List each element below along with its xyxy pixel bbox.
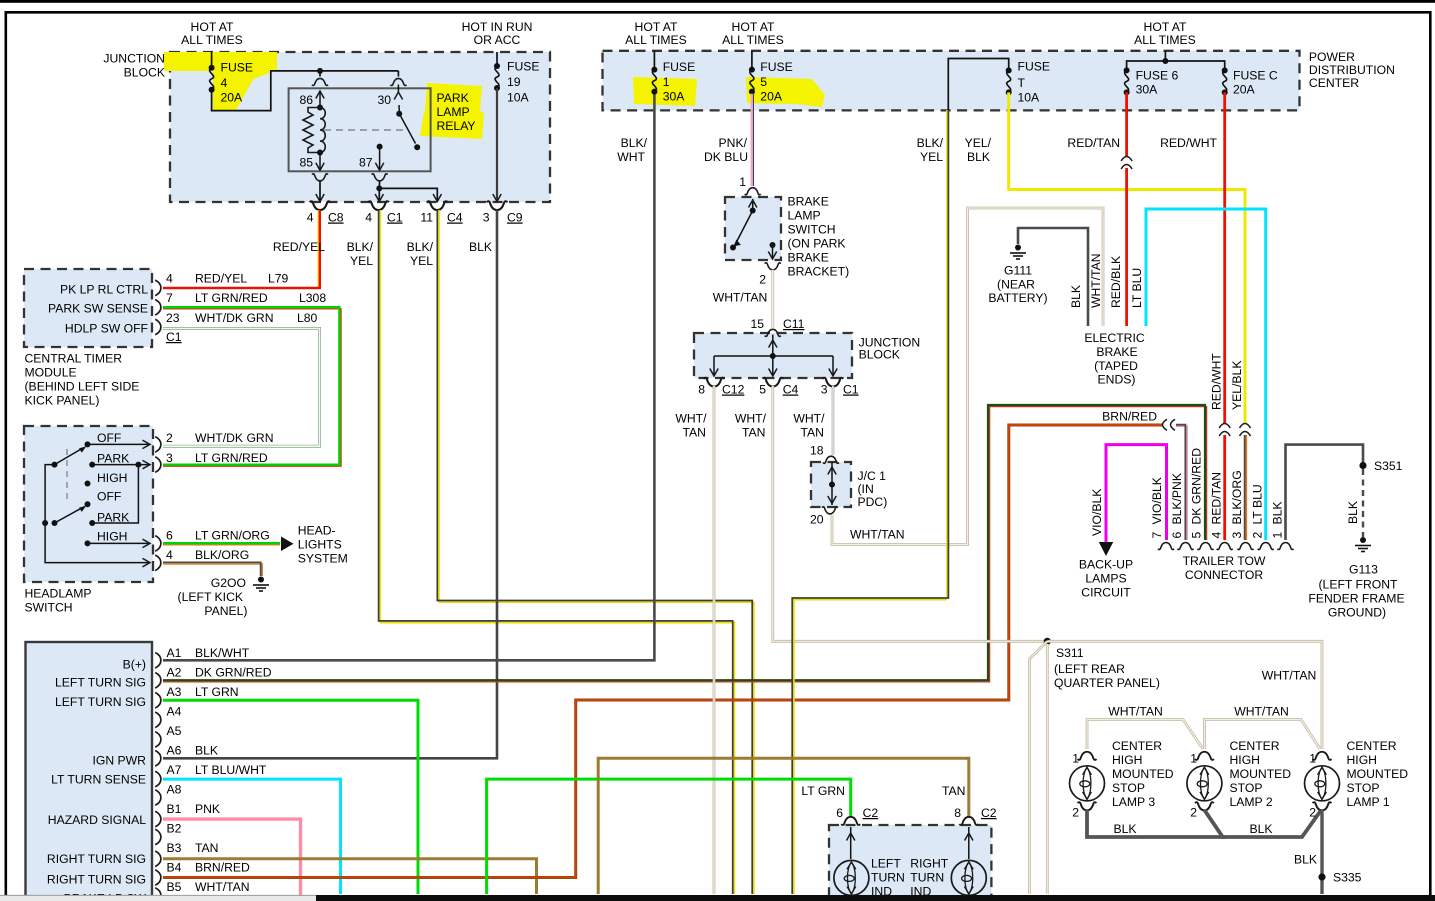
- right turn indicator feed arrow: [968, 827, 970, 859]
- svg-text:C11: C11: [783, 317, 805, 331]
- svg-text:WHT/TAN: WHT/TAN: [1108, 705, 1163, 719]
- wire BLK/YEL PDC down-left-down: [794, 110, 947, 894]
- svg-text:T: T: [1018, 76, 1026, 90]
- headlamp switch box: [24, 426, 153, 582]
- stop lamp 1: [1305, 766, 1340, 801]
- trailer pin 1 arc: [1278, 543, 1294, 550]
- svg-text:10A: 10A: [507, 91, 530, 105]
- pin 20 arc: [822, 507, 838, 514]
- wire BRN/RED B4 to inline connector: [163, 425, 1162, 878]
- svg-text:MODULE: MODULE: [25, 366, 77, 380]
- relay pin 86 internal arrow: [319, 91, 321, 108]
- svg-text:C4: C4: [783, 383, 799, 397]
- splice S311: [1044, 638, 1051, 645]
- wire pin 87 split to C1 and C4: [379, 180, 437, 201]
- highlight junction block fuse 4: [164, 52, 277, 84]
- splice S335: [1318, 873, 1325, 880]
- pin 30 arc: [390, 78, 406, 85]
- svg-text:OR ACC: OR ACC: [474, 33, 521, 47]
- svg-text:WHT/TAN: WHT/TAN: [1089, 253, 1103, 308]
- svg-text:A8: A8: [167, 783, 182, 797]
- svg-text:LT BLU: LT BLU: [1130, 268, 1144, 308]
- svg-text:LT TURN SENSE: LT TURN SENSE: [51, 773, 146, 787]
- svg-text:HIGH: HIGH: [1347, 753, 1377, 767]
- switch mechanical dashed link: [66, 449, 68, 502]
- svg-text:BLK: BLK: [1113, 822, 1136, 836]
- sheet top black strip: [0, 0, 1435, 3]
- svg-text:PARK: PARK: [97, 452, 129, 466]
- svg-text:ENDS): ENDS): [1098, 373, 1136, 387]
- svg-text:85: 85: [299, 156, 313, 170]
- svg-text:B3: B3: [167, 841, 182, 855]
- wire TAN B3 down: [163, 859, 537, 894]
- wire RED/YEL C8 to CTM pin 4: [317, 210, 319, 287]
- connector C1 arc: [823, 378, 844, 387]
- svg-text:C1: C1: [387, 211, 403, 225]
- svg-text:SWITCH: SWITCH: [25, 601, 73, 615]
- svg-text:IGN PWR: IGN PWR: [93, 754, 147, 768]
- wire pin 85 to C8: [319, 180, 321, 201]
- wire PNK/DK BLU fuse 5 to brake lamp switch pin 1: [752, 94, 754, 186]
- relay switch contact 30: [397, 85, 399, 93]
- svg-text:BLK: BLK: [1294, 853, 1317, 867]
- wire WHT/TAN S311 branch down-left: [1030, 641, 1048, 894]
- pin 2 arc: [155, 437, 161, 453]
- trailer pin 3 arc: [1238, 543, 1254, 550]
- switch OFF2 contact dot: [85, 501, 91, 507]
- svg-text:15: 15: [750, 317, 764, 331]
- J/C 1 box: [811, 462, 851, 507]
- switch PARK contact row: [89, 462, 95, 468]
- pin B4 arc: [155, 870, 161, 886]
- svg-text:B4: B4: [167, 861, 182, 875]
- switch OFF contact row: [85, 441, 91, 447]
- svg-text:B1: B1: [167, 802, 182, 816]
- svg-text:WHT/: WHT/: [735, 412, 767, 426]
- arrow back-up lamps circuit: [1099, 542, 1113, 556]
- svg-text:(BEHIND LEFT SIDE: (BEHIND LEFT SIDE: [25, 380, 140, 394]
- svg-text:TAN: TAN: [195, 841, 218, 855]
- svg-text:A7: A7: [167, 763, 182, 777]
- pin 15 C11 arc: [765, 329, 781, 336]
- svg-text:C2: C2: [981, 806, 997, 820]
- svg-text:8: 8: [954, 806, 961, 820]
- junction block (middle) box: [694, 333, 852, 378]
- wire feed fuse 1: [653, 51, 655, 68]
- inline connector BRN/RED to BLK/PNK: [1164, 423, 1173, 428]
- wire to relay pin 86: [319, 71, 321, 77]
- pin A1 arc: [155, 653, 161, 669]
- svg-text:C1: C1: [166, 330, 182, 344]
- svg-text:YEL: YEL: [920, 150, 943, 164]
- wire fuse 4 to relay bus: [212, 71, 399, 111]
- wire BLK lamp3 to lamp2: [1087, 810, 1223, 837]
- svg-text:TAN: TAN: [801, 426, 824, 440]
- bus fuse 6 / fuse C: [1127, 51, 1225, 69]
- svg-text:86: 86: [299, 93, 313, 107]
- svg-text:LEFT TURN SIG: LEFT TURN SIG: [55, 695, 146, 709]
- svg-text:(NEAR: (NEAR: [997, 278, 1035, 292]
- svg-text:G113: G113: [1349, 563, 1378, 577]
- svg-text:2: 2: [166, 431, 173, 445]
- svg-text:PK LP RL CTRL: PK LP RL CTRL: [60, 283, 148, 297]
- svg-text:1: 1: [663, 75, 670, 89]
- svg-text:L80: L80: [297, 311, 318, 325]
- svg-text:6: 6: [1170, 532, 1184, 539]
- svg-text:CONNECTOR: CONNECTOR: [1185, 568, 1264, 582]
- svg-text:ELECTRIC: ELECTRIC: [1084, 331, 1144, 345]
- svg-text:BLOCK: BLOCK: [124, 66, 165, 80]
- pin A4 arc: [155, 712, 161, 728]
- inline connector RED/TAN to RED/BLK: [1124, 158, 1129, 167]
- wire BLK lamp1 to S335: [1320, 810, 1323, 894]
- stop lamp 3 pin 1 arc: [1078, 752, 1097, 760]
- pin 4 arc: [155, 555, 161, 571]
- svg-text:G2OO: G2OO: [211, 576, 246, 590]
- svg-text:JUNCTION: JUNCTION: [103, 52, 165, 66]
- ground G111: [1010, 245, 1026, 260]
- wire BLK lamp2 to lamp1: [1223, 811, 1321, 837]
- svg-text:VIO/BLK: VIO/BLK: [1150, 477, 1164, 524]
- highlight fuse 5 20A: [746, 77, 825, 107]
- svg-text:PNK/: PNK/: [719, 136, 748, 150]
- svg-text:(LEFT KICK: (LEFT KICK: [178, 590, 243, 604]
- connector C4 arc: [762, 378, 783, 387]
- svg-text:YEL: YEL: [350, 254, 373, 268]
- wire WHT/TAN S311 to stop lamp 1: [1047, 641, 1322, 749]
- svg-text:J/C 1: J/C 1: [858, 469, 887, 483]
- svg-text:OFF: OFF: [97, 431, 121, 445]
- svg-text:2: 2: [1072, 806, 1079, 820]
- left turn indicator feed arrow: [850, 827, 852, 859]
- svg-text:BRACKET): BRACKET): [788, 265, 850, 279]
- relay coil resistor zigzag: [303, 108, 320, 153]
- svg-text:RED/WHT: RED/WHT: [1160, 136, 1217, 150]
- svg-text:2: 2: [1251, 532, 1265, 539]
- svg-text:YEL/: YEL/: [965, 136, 992, 150]
- svg-text:23: 23: [166, 311, 180, 325]
- svg-text:BLK/: BLK/: [621, 136, 648, 150]
- svg-text:L79: L79: [268, 272, 289, 286]
- splice S351: [1359, 462, 1366, 469]
- svg-text:(LEFT FRONT: (LEFT FRONT: [1319, 578, 1399, 592]
- connector C8 arc: [310, 201, 331, 210]
- svg-text:A3: A3: [167, 685, 182, 699]
- svg-text:3: 3: [483, 211, 490, 225]
- svg-text:1: 1: [1309, 752, 1316, 766]
- node pin 87 wire split: [376, 185, 382, 191]
- svg-text:ALL TIMES: ALL TIMES: [1134, 33, 1196, 47]
- svg-text:BLK: BLK: [195, 744, 218, 758]
- svg-text:2: 2: [1190, 806, 1197, 820]
- svg-text:3: 3: [166, 451, 173, 465]
- svg-text:MOUNTED: MOUNTED: [1112, 767, 1174, 781]
- wire WHT/TAN pin 20 to electric brake: [832, 208, 1103, 545]
- svg-text:LT GRN: LT GRN: [801, 784, 845, 798]
- left turn indicator lamp: [834, 860, 869, 895]
- svg-text:FUSE: FUSE: [1018, 60, 1051, 74]
- svg-text:KICK PANEL): KICK PANEL): [25, 394, 100, 408]
- svg-text:L308: L308: [299, 291, 326, 305]
- svg-text:RED/YEL: RED/YEL: [273, 240, 325, 254]
- stop lamp 2: [1187, 766, 1222, 801]
- svg-text:LAMP 2: LAMP 2: [1230, 795, 1273, 809]
- svg-text:TAN: TAN: [942, 784, 965, 798]
- wire WHT/TAN C4 to S311: [773, 386, 1046, 641]
- svg-text:STOP: STOP: [1112, 781, 1145, 795]
- svg-text:5: 5: [760, 75, 767, 89]
- svg-text:LT GRN/RED: LT GRN/RED: [195, 291, 268, 305]
- svg-text:2: 2: [1309, 806, 1316, 820]
- svg-text:GROUND): GROUND): [1328, 606, 1386, 620]
- svg-text:VIO/BLK: VIO/BLK: [1090, 489, 1104, 536]
- svg-text:S311: S311: [1056, 646, 1084, 660]
- svg-text:CENTER: CENTER: [1112, 739, 1162, 753]
- wire LT GRN to C2 pin 6: [487, 779, 851, 894]
- svg-text:BLOCK: BLOCK: [859, 348, 900, 362]
- svg-text:HEAD-: HEAD-: [298, 524, 336, 538]
- C2 pin 8 arc: [959, 817, 978, 825]
- pin B2 arc: [155, 829, 161, 845]
- svg-text:BLK/: BLK/: [347, 240, 374, 254]
- wire to relay pin 30: [397, 71, 399, 77]
- svg-text:FUSE 6: FUSE 6: [1136, 69, 1179, 83]
- svg-text:S335: S335: [1333, 871, 1362, 885]
- pin B5 arc: [155, 888, 161, 901]
- svg-text:PARK: PARK: [97, 511, 129, 525]
- svg-text:WHT/TAN: WHT/TAN: [1234, 705, 1289, 719]
- svg-text:TAN: TAN: [683, 426, 706, 440]
- svg-text:PARK SW SENSE: PARK SW SENSE: [48, 302, 148, 316]
- wire LT BLU/WHT A7 down: [163, 779, 341, 894]
- pin A6 arc: [155, 751, 161, 767]
- svg-text:BLK: BLK: [1069, 285, 1083, 308]
- connector C1 arc: [368, 201, 389, 210]
- wire LT GRN/RED pin7 to headlamp pin3: [163, 309, 341, 466]
- relay coil node top: [317, 105, 323, 111]
- pin A2 arc: [155, 673, 161, 689]
- svg-text:BLK/PNK: BLK/PNK: [1170, 473, 1184, 524]
- svg-text:4: 4: [166, 548, 173, 562]
- svg-text:A1: A1: [167, 646, 182, 660]
- svg-text:5: 5: [759, 383, 766, 397]
- pin A7 arc: [155, 771, 161, 787]
- pin 7 arc: [155, 300, 161, 316]
- pin 1 arc brake lamp switch: [745, 188, 761, 195]
- wire BLK trailer pin 1 to S351: [1286, 445, 1364, 540]
- svg-text:LT BLU: LT BLU: [1251, 484, 1265, 524]
- highlight fuse 1 30A: [633, 77, 697, 106]
- svg-text:BLK/: BLK/: [407, 240, 434, 254]
- svg-text:6: 6: [166, 529, 173, 543]
- power distribution center box: [603, 51, 1300, 111]
- svg-text:7: 7: [166, 291, 173, 305]
- wire PNK B1 down: [163, 819, 301, 896]
- stop lamp 3: [1070, 766, 1105, 801]
- svg-text:HDLP SW OFF: HDLP SW OFF: [65, 322, 148, 336]
- svg-text:LAMP 3: LAMP 3: [1112, 795, 1155, 809]
- pin A8 arc: [155, 790, 161, 806]
- svg-text:PDC): PDC): [858, 495, 888, 509]
- pin 18 arc: [823, 456, 839, 463]
- svg-text:YEL: YEL: [410, 254, 433, 268]
- stop lamp 1 pin 2 arc: [1313, 802, 1332, 810]
- wire BLK/ORG to trailer pin 3: [1245, 435, 1247, 540]
- svg-text:LAMP: LAMP: [437, 105, 470, 119]
- svg-text:RIGHT TURN SIG: RIGHT TURN SIG: [47, 852, 146, 866]
- central timer module box: [24, 269, 152, 347]
- highlight park lamp relay: [420, 83, 484, 139]
- arrow to headlights system: [281, 537, 294, 552]
- svg-text:LT BLU/WHT: LT BLU/WHT: [195, 763, 267, 777]
- svg-text:RIGHT TURN SIG: RIGHT TURN SIG: [47, 873, 146, 887]
- svg-text:MOUNTED: MOUNTED: [1347, 767, 1409, 781]
- connector C9 arc: [487, 201, 508, 210]
- trailer pin 6 arc: [1178, 543, 1194, 550]
- svg-text:4: 4: [1210, 532, 1224, 539]
- svg-text:TRAILER TOW: TRAILER TOW: [1183, 554, 1266, 568]
- svg-text:BLK: BLK: [469, 240, 492, 254]
- svg-text:B5: B5: [167, 880, 182, 894]
- svg-text:C8: C8: [328, 211, 344, 225]
- ground G113: [1355, 537, 1371, 552]
- svg-text:FUSE: FUSE: [760, 60, 793, 74]
- wire BLK ground G111 to electric brake: [1018, 228, 1088, 326]
- svg-text:RED/BLK: RED/BLK: [1109, 256, 1123, 308]
- svg-text:SYSTEM: SYSTEM: [298, 552, 348, 566]
- svg-text:C2: C2: [863, 806, 879, 820]
- brake lamp switch internals: [752, 199, 754, 211]
- wire BLK C9 to A6 IGN PWR: [163, 210, 497, 758]
- svg-text:BLK: BLK: [1346, 501, 1360, 524]
- svg-text:MOUNTED: MOUNTED: [1230, 767, 1292, 781]
- svg-text:FUSE C: FUSE C: [1233, 69, 1278, 83]
- fuse F19 10A: [494, 63, 500, 91]
- svg-text:S351: S351: [1374, 459, 1403, 473]
- stop lamp 3 pin 2 arc: [1078, 802, 1097, 810]
- inline connector YEL/BLK to BLK/ORG: [1243, 425, 1248, 434]
- svg-text:(ON PARK: (ON PARK: [788, 237, 846, 251]
- svg-text:1: 1: [1271, 532, 1285, 539]
- svg-text:1: 1: [1072, 752, 1079, 766]
- wire BLK/WHT A1 to fuse 1: [163, 94, 654, 660]
- svg-text:BRAKE: BRAKE: [788, 251, 829, 265]
- svg-text:3: 3: [821, 383, 828, 397]
- svg-text:DISTRIBUTION: DISTRIBUTION: [1309, 63, 1395, 77]
- svg-text:SWITCH: SWITCH: [788, 223, 836, 237]
- svg-text:LT GRN/RED: LT GRN/RED: [195, 451, 268, 465]
- svg-text:OFF: OFF: [97, 490, 121, 504]
- pin 4 arc: [155, 280, 161, 296]
- svg-text:C1: C1: [843, 383, 859, 397]
- svg-text:CIRCUIT: CIRCUIT: [1081, 586, 1131, 600]
- svg-text:HIGH: HIGH: [97, 471, 127, 485]
- relay pin 85 internal arrow: [319, 153, 321, 171]
- fuse FT 10A: [1006, 67, 1012, 95]
- fuse F4 20A: [209, 65, 215, 93]
- svg-text:RIGHT: RIGHT: [910, 857, 948, 871]
- svg-text:30: 30: [377, 93, 391, 107]
- svg-text:LEFT: LEFT: [871, 857, 901, 871]
- switch common rail: [42, 520, 48, 526]
- svg-text:WHT/DK GRN: WHT/DK GRN: [195, 431, 274, 445]
- wire BLK/YEL C4 down-right-down: [439, 210, 754, 894]
- svg-text:TAN: TAN: [742, 426, 765, 440]
- svg-text:HOT AT: HOT AT: [191, 20, 234, 34]
- svg-text:CENTER: CENTER: [1347, 739, 1397, 753]
- wire WHT/TAN C12 down: [713, 386, 716, 894]
- svg-text:STOP: STOP: [1230, 781, 1263, 795]
- svg-text:1: 1: [1190, 752, 1197, 766]
- svg-text:4: 4: [365, 211, 372, 225]
- svg-text:BLK/ORG: BLK/ORG: [195, 548, 249, 562]
- svg-text:G111: G111: [1004, 264, 1032, 278]
- svg-text:WHT: WHT: [617, 150, 645, 164]
- svg-text:HOT AT: HOT AT: [635, 20, 678, 34]
- trailer pin 4 arc: [1217, 543, 1233, 550]
- svg-text:QUARTER PANEL): QUARTER PANEL): [1054, 676, 1160, 690]
- svg-text:BLK/: BLK/: [917, 136, 944, 150]
- wire WHT/TAN C1 to J/C 1 pin 18: [832, 386, 835, 455]
- svg-text:20A: 20A: [221, 91, 244, 105]
- wire TAN to C2 pin 8: [598, 758, 969, 894]
- svg-text:A2: A2: [167, 666, 182, 680]
- wire DK GRN/RED A2 to trailer pin 5: [163, 407, 1207, 682]
- svg-text:DK GRN/RED: DK GRN/RED: [1190, 448, 1204, 525]
- svg-text:PNK: PNK: [195, 802, 220, 816]
- svg-text:CENTRAL TIMER: CENTRAL TIMER: [25, 352, 123, 366]
- fuse FC 20A: [1222, 67, 1228, 95]
- svg-text:(LEFT REAR: (LEFT REAR: [1054, 662, 1125, 676]
- bottom black strip: [316, 895, 1435, 901]
- trailer pin 2 arc: [1258, 543, 1274, 550]
- relay box outline: [289, 88, 431, 171]
- svg-text:DK BLU: DK BLU: [704, 150, 748, 164]
- wire VIO/BLK trailer pin 7 to back-up lamps: [1106, 445, 1167, 542]
- svg-text:LT GRN: LT GRN: [195, 685, 239, 699]
- svg-text:20A: 20A: [760, 90, 783, 104]
- pin 23 arc: [155, 319, 161, 335]
- svg-text:C4: C4: [447, 211, 463, 225]
- wire YEL/BLK fuse T to inline connector: [1009, 92, 1245, 423]
- wire WHT/TAN lamp3 to lamp2 jumper: [1087, 720, 1203, 750]
- stop lamp 2 pin 2 arc: [1195, 802, 1214, 810]
- svg-text:ALL TIMES: ALL TIMES: [722, 33, 784, 47]
- wire WHT/TAN S311 branch straight down: [1046, 644, 1049, 894]
- svg-text:20A: 20A: [1233, 83, 1256, 97]
- svg-text:1: 1: [739, 175, 746, 189]
- pin 2 arc brake lamp switch: [765, 263, 781, 270]
- wire feed fuse 19: [496, 52, 498, 64]
- svg-text:87: 87: [359, 156, 373, 170]
- node fuse bus: [1162, 58, 1168, 64]
- wire WHT/DK GRN pin23 to headlamp pin2: [163, 329, 320, 447]
- pin 6 arc: [155, 536, 161, 552]
- relay pin 87 contact: [377, 144, 383, 150]
- svg-text:RED/TAN: RED/TAN: [1210, 472, 1224, 525]
- svg-text:A5: A5: [167, 724, 182, 738]
- svg-text:B(+): B(+): [123, 658, 146, 672]
- stop lamp 2 pin 1 arc: [1195, 752, 1214, 760]
- svg-text:TURN: TURN: [871, 871, 905, 885]
- svg-text:DK GRN/RED: DK GRN/RED: [195, 666, 272, 680]
- wire feed fuse 5: [751, 51, 753, 68]
- svg-text:BLK: BLK: [1271, 501, 1285, 524]
- svg-text:BLK: BLK: [1249, 822, 1272, 836]
- svg-text:TURN: TURN: [910, 871, 944, 885]
- pin 85 arc below relay: [312, 174, 328, 181]
- svg-text:WHT/TAN: WHT/TAN: [195, 880, 250, 894]
